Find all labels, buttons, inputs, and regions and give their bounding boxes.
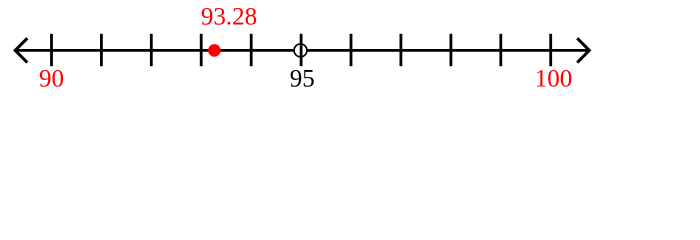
right arrowhead: [577, 38, 589, 62]
svg-text:100: 100: [535, 66, 573, 93]
point 93.28 red dot: [208, 44, 221, 57]
tick 94: [250, 34, 253, 66]
tick 93: [200, 34, 203, 66]
tick 100: [549, 34, 552, 66]
svg-text:95: 95: [290, 66, 315, 93]
tick 96: [350, 34, 353, 66]
svg-text:90: 90: [39, 66, 64, 93]
open circle at 95 (tick behind): [294, 44, 307, 57]
tick 91: [100, 34, 103, 66]
tick 95: [300, 34, 303, 66]
tick 92: [150, 34, 153, 66]
left arrowhead: [15, 38, 27, 62]
tick 99: [499, 34, 502, 66]
number line shaft: [16, 49, 590, 52]
svg-text:93.28: 93.28: [201, 4, 257, 31]
tick 98: [449, 34, 452, 66]
tick 90: [50, 34, 53, 66]
tick 97: [399, 34, 402, 66]
